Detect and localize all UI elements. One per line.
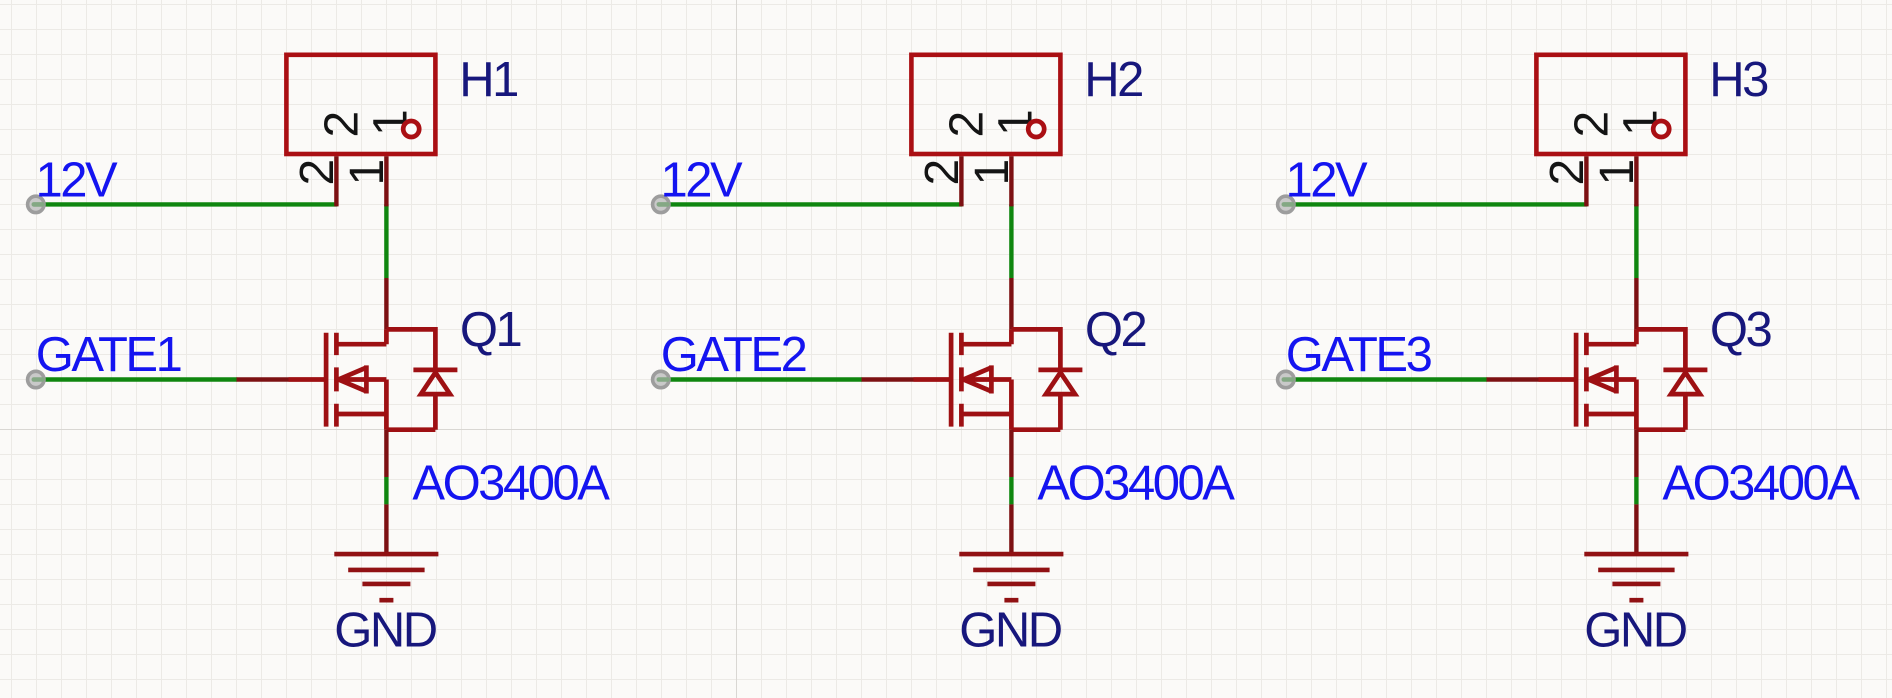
Q3 channel segments xyxy=(1584,333,1589,427)
transistor Q2 AO3400A symbol xyxy=(914,329,1083,429)
Q2 drain pin xyxy=(1009,278,1013,329)
svg-text:AO3400A: AO3400A xyxy=(412,457,610,511)
port pin 12V xyxy=(28,196,44,212)
svg-text:H2: H2 xyxy=(1084,53,1142,107)
svg-text:GATE3: GATE3 xyxy=(1286,328,1432,382)
Q1 body diode triangle xyxy=(421,373,450,395)
svg-text:Q1: Q1 xyxy=(460,303,521,357)
svg-text:H1: H1 xyxy=(459,53,517,107)
Q3 drain vertical and diode branch xyxy=(1636,329,1685,368)
Q1 gate lead xyxy=(289,377,327,382)
wire Q3 source to GND xyxy=(1634,477,1638,504)
Q3 body diode triangle xyxy=(1671,373,1700,395)
svg-text:2: 2 xyxy=(940,111,993,138)
GND pin stub xyxy=(384,504,388,554)
ground symbol xyxy=(334,554,438,600)
ground symbol xyxy=(1584,554,1688,600)
Q2 channel segments xyxy=(959,333,964,427)
Q3 gate lead xyxy=(1539,377,1577,382)
H2 pin 1 stub xyxy=(1009,156,1013,206)
port pin GATE1 xyxy=(28,371,44,387)
Q3 gate pin xyxy=(1487,377,1539,381)
Q2 bulk lead and arrow xyxy=(963,365,1011,393)
Q3 bulk lead and arrow xyxy=(1588,365,1636,393)
Q1 source vertical xyxy=(384,380,389,430)
wire GATE2 xyxy=(661,377,862,381)
svg-text:GATE2: GATE2 xyxy=(661,328,806,382)
svg-text:12V: 12V xyxy=(661,154,744,208)
Q1 bulk lead and arrow xyxy=(338,365,386,393)
Q1 source lead xyxy=(336,412,386,417)
port pin 12V xyxy=(1278,196,1294,212)
wire GATE3 xyxy=(1286,377,1487,381)
svg-text:1: 1 xyxy=(341,159,394,186)
svg-text:Q2: Q2 xyxy=(1085,303,1146,357)
H2 pin 2 stub xyxy=(959,156,963,206)
wire H2 pin1 to Q2 drain xyxy=(1009,204,1013,278)
connector H2 body xyxy=(911,55,1060,154)
GND pin stub xyxy=(1634,504,1638,554)
port pin GATE3 xyxy=(1278,371,1294,387)
transistor Q3 AO3400A symbol xyxy=(1539,329,1708,429)
wire H1 pin1 to Q1 drain xyxy=(384,204,388,278)
Q3 diode anode vertical xyxy=(1636,394,1685,430)
Q3 gate bar xyxy=(1574,333,1579,427)
H3 pin 2 stub xyxy=(1584,156,1588,206)
Q1 drain lead xyxy=(336,342,386,347)
svg-text:Q3: Q3 xyxy=(1710,303,1772,357)
svg-text:1: 1 xyxy=(966,159,1019,186)
Q2 drain lead xyxy=(961,342,1011,347)
Q2 gate pin xyxy=(862,377,914,381)
H1 pin 2 stub xyxy=(334,156,338,206)
wire H3 pin1 to Q3 drain xyxy=(1634,204,1638,278)
svg-text:GND: GND xyxy=(1584,604,1687,658)
wire Q1 source to GND xyxy=(384,477,388,504)
Q1 body diode cathode bar xyxy=(413,368,457,373)
Q2 body diode cathode bar xyxy=(1038,368,1082,373)
Q3 source lead xyxy=(1586,412,1636,417)
Q2 diode anode vertical xyxy=(1011,394,1060,430)
connector H3 body xyxy=(1536,55,1685,154)
svg-text:AO3400A: AO3400A xyxy=(1037,457,1235,511)
Q1 channel segments xyxy=(334,333,339,427)
Q2 gate bar xyxy=(949,333,954,427)
Q1 gate pin xyxy=(237,377,289,381)
H1 pin 1 indicator circle xyxy=(403,121,419,137)
Q3 source vertical xyxy=(1634,380,1639,430)
transistor Q1 AO3400A symbol xyxy=(289,329,458,429)
H1 pin 1 stub xyxy=(384,156,388,206)
svg-text:GATE1: GATE1 xyxy=(36,328,181,382)
Q1 diode anode vertical xyxy=(386,394,435,430)
Q2 source lead xyxy=(961,412,1011,417)
connector H1 body xyxy=(286,55,435,154)
svg-text:GND: GND xyxy=(334,604,437,658)
Q3 drain pin xyxy=(1634,278,1638,329)
svg-text:12V: 12V xyxy=(1286,154,1369,208)
Q2 drain vertical and diode branch xyxy=(1011,329,1060,368)
svg-text:AO3400A: AO3400A xyxy=(1662,457,1860,511)
svg-text:2: 2 xyxy=(1565,111,1618,138)
Q1 drain vertical and diode branch xyxy=(386,329,435,368)
wire GATE1 xyxy=(36,377,237,381)
H3 pin 1 indicator circle xyxy=(1653,121,1669,137)
Q1 drain pin xyxy=(384,278,388,329)
svg-text:1: 1 xyxy=(1591,159,1644,186)
wire 12V xyxy=(1286,202,1587,206)
Q3 source pin xyxy=(1634,430,1638,477)
svg-text:12V: 12V xyxy=(36,154,119,208)
svg-text:2: 2 xyxy=(291,159,344,186)
Q1 source pin xyxy=(384,430,388,477)
Q3 drain lead xyxy=(1586,342,1636,347)
svg-text:H3: H3 xyxy=(1709,53,1768,107)
Q2 body diode triangle xyxy=(1046,373,1075,395)
Q1 gate bar xyxy=(324,333,329,427)
svg-text:2: 2 xyxy=(315,111,368,138)
wire Q2 source to GND xyxy=(1009,477,1013,504)
Q2 source vertical xyxy=(1009,380,1014,430)
Q3 body diode cathode bar xyxy=(1663,368,1707,373)
port pin GATE2 xyxy=(653,371,669,387)
GND pin stub xyxy=(1009,504,1013,554)
Q2 gate lead xyxy=(914,377,952,382)
svg-text:2: 2 xyxy=(1541,159,1594,186)
H2 pin 1 indicator circle xyxy=(1028,121,1044,137)
wire 12V xyxy=(661,202,962,206)
port pin 12V xyxy=(653,196,669,212)
svg-text:GND: GND xyxy=(959,604,1062,658)
Q2 source pin xyxy=(1009,430,1013,477)
svg-text:2: 2 xyxy=(916,159,969,186)
ground symbol xyxy=(959,554,1063,600)
H3 pin 1 stub xyxy=(1634,156,1638,206)
wire 12V xyxy=(36,202,337,206)
